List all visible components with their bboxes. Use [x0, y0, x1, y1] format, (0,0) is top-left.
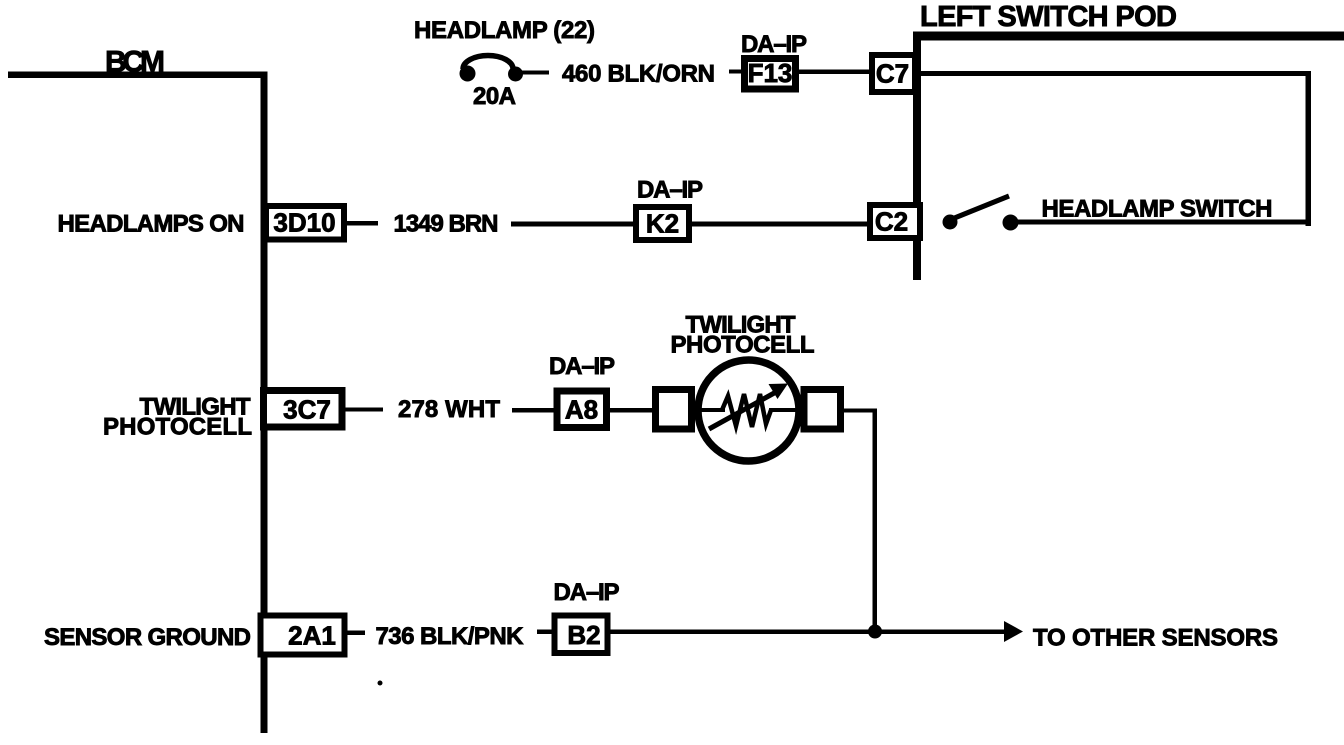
svg-text:C2: C2 — [875, 207, 908, 237]
svg-text:DA–IP: DA–IP — [741, 31, 807, 58]
svg-text:278 WHT: 278 WHT — [398, 396, 500, 423]
svg-text:TO OTHER SENSORS: TO OTHER SENSORS — [1033, 625, 1278, 652]
svg-text:HEADLAMPS ON: HEADLAMPS ON — [58, 211, 245, 238]
svg-text:BCM: BCM — [105, 46, 165, 79]
svg-text:3D10: 3D10 — [273, 208, 335, 238]
svg-text:C7: C7 — [876, 59, 909, 89]
svg-text:F13: F13 — [748, 58, 793, 88]
svg-text:736 BLK/PNK: 736 BLK/PNK — [376, 623, 525, 650]
svg-text:B2: B2 — [567, 620, 600, 650]
svg-text:3C7: 3C7 — [283, 395, 331, 425]
svg-text:SENSOR GROUND: SENSOR GROUND — [44, 624, 251, 651]
svg-text:DA–IP: DA–IP — [549, 353, 615, 380]
svg-text:1349 BRN: 1349 BRN — [394, 211, 499, 238]
svg-text:2A1: 2A1 — [288, 621, 336, 651]
svg-text:HEADLAMP (22): HEADLAMP (22) — [414, 17, 595, 44]
svg-text:LEFT SWITCH POD: LEFT SWITCH POD — [920, 1, 1177, 33]
svg-text:PHOTOCELL: PHOTOCELL — [671, 332, 815, 359]
svg-text:DA–IP: DA–IP — [637, 177, 703, 204]
svg-text:HEADLAMP SWITCH: HEADLAMP SWITCH — [1042, 196, 1273, 223]
svg-text:K2: K2 — [646, 209, 679, 239]
svg-text:A8: A8 — [565, 395, 598, 425]
svg-text:20A: 20A — [473, 83, 516, 110]
svg-text:460 BLK/ORN: 460 BLK/ORN — [562, 61, 715, 88]
svg-text:DA–IP: DA–IP — [554, 579, 620, 606]
svg-text:PHOTOCELL: PHOTOCELL — [103, 414, 252, 441]
